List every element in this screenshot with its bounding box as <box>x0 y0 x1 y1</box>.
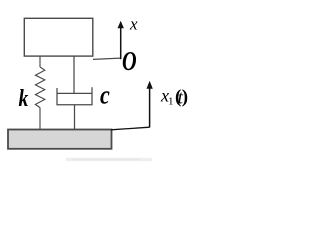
x axis vertical line <box>120 25 122 59</box>
svg-text:k: k <box>19 84 29 111</box>
spring k upper stub <box>39 56 41 67</box>
svg-text:1: 1 <box>168 96 174 108</box>
damper bottom rod <box>74 105 76 130</box>
damper cylinder cup <box>57 87 92 104</box>
faint ground smudge below base <box>66 158 152 161</box>
mass block M <box>24 18 93 56</box>
x1 axis horizontal line <box>111 127 150 130</box>
link line from mass to origin O <box>93 58 121 59</box>
spring k zigzag <box>35 67 44 108</box>
svg-text:): ) <box>182 86 188 107</box>
svg-text:x: x <box>129 14 138 33</box>
spring k lower stub <box>39 108 41 130</box>
label x1(t) <box>160 86 188 109</box>
x1 axis vertical line <box>149 85 151 127</box>
x1 axis arrowhead <box>147 81 153 89</box>
damper top rod <box>73 56 75 93</box>
svg-text:O: O <box>122 47 137 76</box>
base ground block <box>8 130 112 149</box>
svg-text:c: c <box>100 82 110 110</box>
x axis arrowhead <box>118 21 124 29</box>
damper piston plate <box>57 92 92 94</box>
